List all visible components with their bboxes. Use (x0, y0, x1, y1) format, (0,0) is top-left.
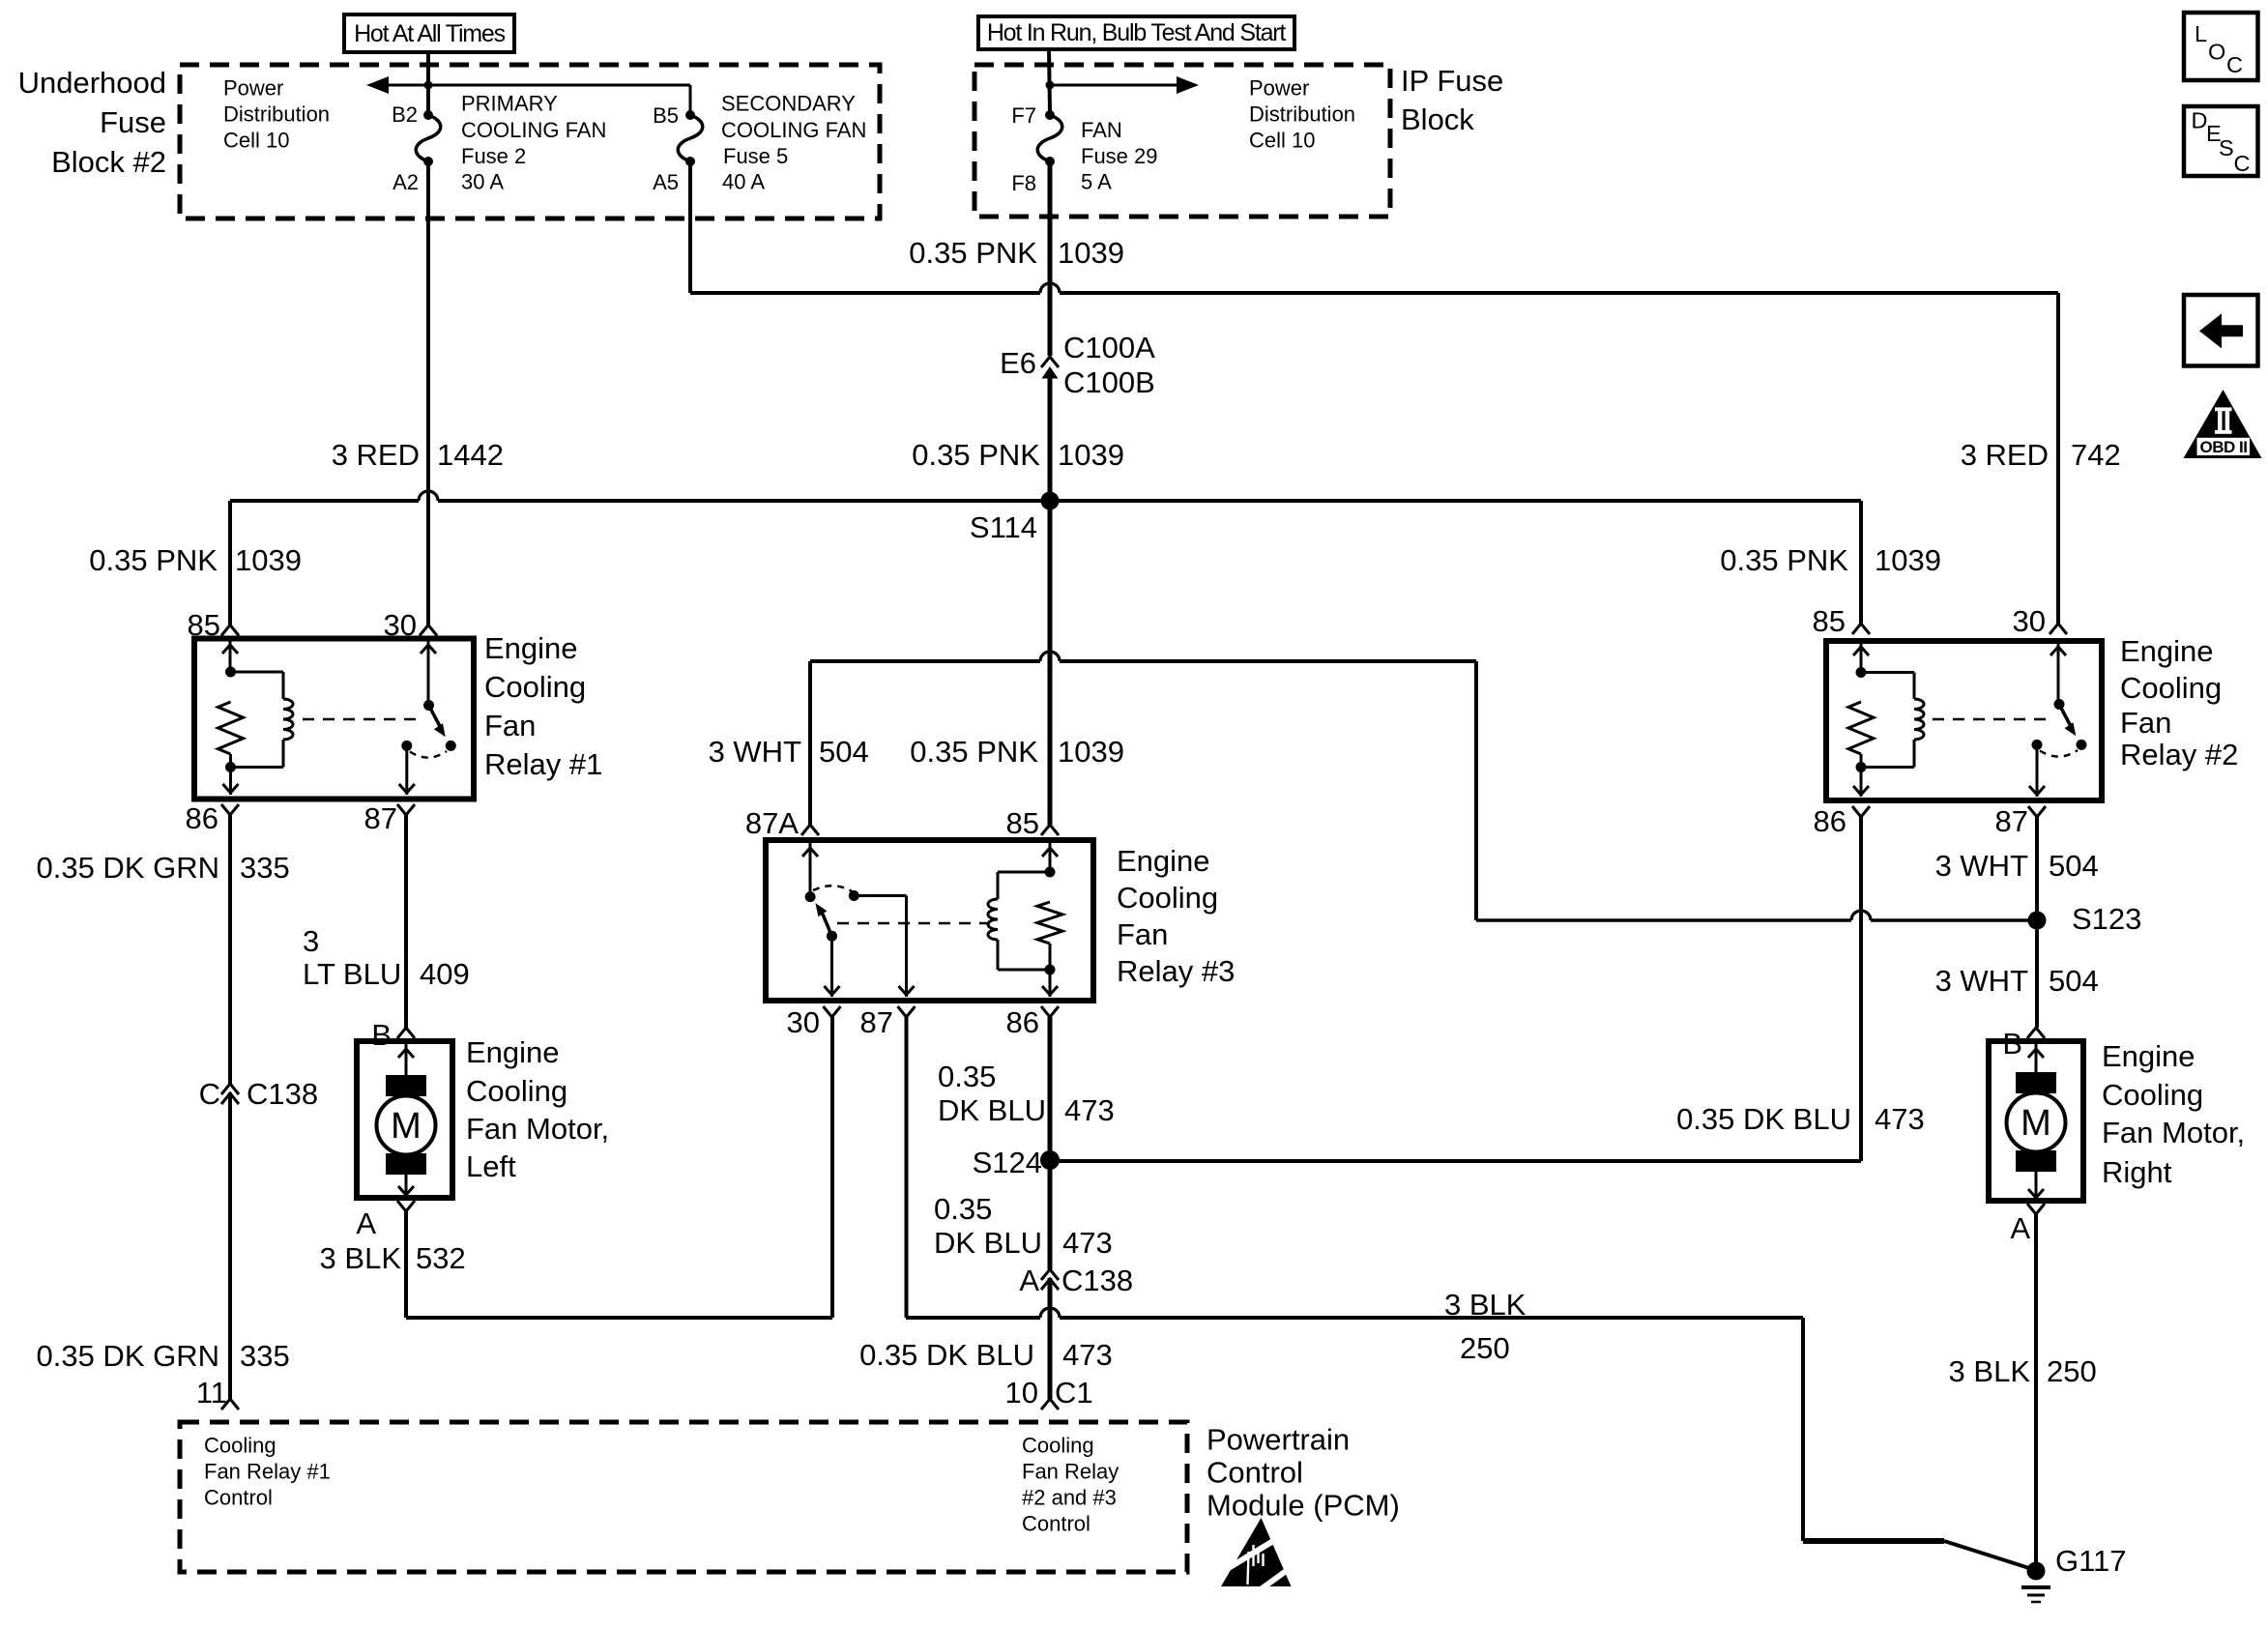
svg-text:3 RED: 3 RED (1961, 438, 2049, 472)
svg-text:250: 250 (1460, 1331, 1510, 1365)
svg-text:0.35 DK GRN: 0.35 DK GRN (36, 851, 219, 885)
svg-text:#2 and #3: #2 and #3 (1022, 1486, 1117, 1510)
svg-text:Cell 10: Cell 10 (223, 129, 289, 153)
svg-text:B2: B2 (392, 102, 418, 127)
svg-text:Cooling: Cooling (2102, 1078, 2203, 1112)
svg-text:Control: Control (1207, 1456, 1303, 1490)
svg-text:D: D (2192, 108, 2208, 133)
svg-text:473: 473 (1062, 1338, 1113, 1372)
svg-text:Fan: Fan (484, 709, 536, 742)
svg-text:30: 30 (2013, 604, 2046, 638)
svg-text:Fuse 2: Fuse 2 (461, 144, 526, 168)
svg-text:Relay #2: Relay #2 (2120, 738, 2238, 771)
svg-text:1442: 1442 (437, 438, 504, 472)
svg-text:87: 87 (1995, 804, 2028, 838)
svg-text:1039: 1039 (235, 543, 302, 577)
svg-text:Block: Block (1401, 102, 1474, 136)
svg-text:Engine: Engine (484, 631, 578, 665)
svg-text:O: O (2208, 40, 2225, 65)
svg-text:0.35 PNK: 0.35 PNK (1720, 543, 1848, 577)
svg-text:Engine: Engine (2120, 634, 2214, 668)
svg-text:0.35: 0.35 (934, 1192, 992, 1226)
svg-text:Cooling: Cooling (484, 670, 586, 704)
svg-text:Underhood: Underhood (18, 66, 166, 100)
svg-text:Relay #3: Relay #3 (1117, 954, 1235, 988)
svg-text:B: B (371, 1018, 392, 1052)
svg-text:A: A (2010, 1211, 2030, 1245)
svg-text:250: 250 (2047, 1354, 2097, 1388)
svg-text:3 RED: 3 RED (332, 438, 420, 472)
svg-text:86: 86 (186, 801, 218, 835)
svg-text:87: 87 (364, 801, 397, 835)
svg-text:30: 30 (384, 608, 417, 642)
svg-text:Fan Motor,: Fan Motor, (466, 1112, 609, 1146)
svg-text:Cooling: Cooling (1022, 1434, 1094, 1458)
svg-text:L: L (2195, 21, 2207, 46)
svg-text:Fan Relay: Fan Relay (1022, 1460, 1119, 1484)
svg-text:0.35 DK BLU: 0.35 DK BLU (1676, 1102, 1851, 1136)
svg-text:335: 335 (240, 851, 290, 885)
svg-text:1039: 1039 (1058, 236, 1124, 270)
svg-text:Module (PCM): Module (PCM) (1207, 1489, 1400, 1523)
svg-text:S: S (2219, 135, 2234, 160)
svg-text:F7: F7 (1011, 103, 1036, 128)
svg-text:S123: S123 (2072, 902, 2141, 936)
svg-text:Left: Left (466, 1149, 516, 1183)
svg-text:Fuse 29: Fuse 29 (1081, 144, 1158, 168)
svg-text:Distribution: Distribution (1249, 102, 1355, 127)
svg-text:Engine: Engine (2102, 1039, 2195, 1073)
svg-text:85: 85 (188, 608, 220, 642)
svg-text:A5: A5 (653, 170, 679, 194)
svg-text:3 WHT: 3 WHT (1935, 964, 2029, 998)
svg-text:Block #2: Block #2 (51, 145, 166, 179)
svg-text:85: 85 (1813, 604, 1846, 638)
svg-text:M: M (2021, 1103, 2051, 1144)
svg-text:0.35 DK GRN: 0.35 DK GRN (36, 1339, 219, 1373)
svg-text:Control: Control (204, 1486, 273, 1510)
svg-text:1039: 1039 (1058, 438, 1124, 472)
svg-text:C: C (199, 1077, 220, 1111)
svg-text:Relay #1: Relay #1 (484, 747, 602, 781)
svg-text:40 A: 40 A (722, 170, 765, 194)
svg-text:Fan: Fan (2120, 706, 2171, 740)
svg-text:0.35 PNK: 0.35 PNK (909, 236, 1037, 270)
svg-text:Fuse: Fuse (100, 105, 166, 139)
svg-text:COOLING FAN: COOLING FAN (461, 118, 606, 142)
svg-text:A: A (356, 1206, 376, 1240)
svg-text:C100B: C100B (1063, 365, 1155, 399)
svg-text:Cooling: Cooling (466, 1074, 567, 1108)
svg-text:DK BLU: DK BLU (938, 1093, 1046, 1127)
svg-text:S114: S114 (970, 510, 1037, 544)
svg-text:A: A (1019, 1264, 1039, 1297)
svg-text:F8: F8 (1011, 171, 1036, 195)
svg-text:504: 504 (2049, 964, 2099, 998)
svg-text:504: 504 (2049, 849, 2099, 883)
svg-text:504: 504 (819, 735, 869, 769)
svg-text:Cooling: Cooling (2120, 671, 2222, 705)
svg-text:FAN: FAN (1081, 118, 1122, 142)
svg-text:COOLING FAN: COOLING FAN (721, 118, 866, 142)
svg-text:Cooling: Cooling (204, 1434, 276, 1458)
svg-text:S124: S124 (973, 1146, 1042, 1179)
svg-text:30 A: 30 A (461, 170, 504, 194)
svg-text:10: 10 (1005, 1376, 1038, 1410)
svg-text:B5: B5 (653, 103, 679, 128)
svg-text:532: 532 (416, 1241, 466, 1275)
svg-text:C138: C138 (247, 1077, 318, 1111)
svg-text:Right: Right (2102, 1155, 2172, 1189)
svg-text:Hot In Run, Bulb Test And Star: Hot In Run, Bulb Test And Start (987, 19, 1287, 46)
svg-text:3 WHT: 3 WHT (1935, 849, 2029, 883)
svg-text:3 BLK: 3 BLK (1444, 1288, 1527, 1322)
svg-text:Fan Relay #1: Fan Relay #1 (204, 1460, 331, 1484)
svg-text:0.35: 0.35 (938, 1060, 996, 1093)
svg-text:Fan: Fan (1117, 917, 1168, 951)
svg-text:C: C (2234, 151, 2251, 176)
svg-text:Power: Power (223, 76, 283, 101)
svg-text:Power: Power (1249, 76, 1309, 101)
svg-text:1039: 1039 (1058, 735, 1124, 769)
svg-text:5 A: 5 A (1081, 170, 1112, 194)
svg-text:0.35 PNK: 0.35 PNK (912, 438, 1040, 472)
svg-text:Fan Motor,: Fan Motor, (2102, 1116, 2245, 1149)
svg-text:335: 335 (240, 1339, 290, 1373)
svg-text:C1: C1 (1055, 1376, 1093, 1410)
svg-text:Fuse 5: Fuse 5 (723, 144, 788, 168)
svg-text:0.35 PNK: 0.35 PNK (89, 543, 218, 577)
svg-text:3: 3 (303, 924, 319, 958)
svg-text:Cell 10: Cell 10 (1249, 129, 1315, 153)
svg-text:473: 473 (1062, 1226, 1113, 1260)
svg-text:Control: Control (1022, 1512, 1090, 1536)
svg-text:IP Fuse: IP Fuse (1401, 64, 1503, 98)
svg-text:3 WHT: 3 WHT (709, 735, 802, 769)
svg-text:0.35 PNK: 0.35 PNK (910, 735, 1038, 769)
svg-text:3 BLK: 3 BLK (320, 1241, 402, 1275)
svg-text:473: 473 (1875, 1102, 1925, 1136)
svg-text:C138: C138 (1061, 1264, 1133, 1297)
svg-text:E6: E6 (1000, 346, 1036, 380)
svg-text:G117: G117 (2055, 1544, 2127, 1578)
svg-text:Distribution: Distribution (223, 102, 330, 127)
svg-text:Engine: Engine (1117, 844, 1210, 878)
svg-text:85: 85 (1006, 806, 1039, 840)
svg-text:3 BLK: 3 BLK (1949, 1354, 2031, 1388)
svg-text:B: B (2002, 1027, 2022, 1061)
svg-text:Hot At All Times: Hot At All Times (354, 20, 506, 47)
svg-text:M: M (391, 1106, 422, 1147)
svg-text:87A: 87A (745, 806, 799, 840)
svg-text:C: C (2226, 52, 2243, 77)
svg-text:C100A: C100A (1063, 331, 1155, 364)
svg-text:Powertrain: Powertrain (1207, 1423, 1350, 1457)
svg-text:409: 409 (420, 957, 470, 991)
svg-text:SECONDARY: SECONDARY (721, 92, 856, 116)
svg-text:742: 742 (2071, 438, 2121, 472)
svg-text:30: 30 (787, 1005, 820, 1039)
svg-text:0.35 DK BLU: 0.35 DK BLU (859, 1338, 1034, 1372)
svg-text:DK BLU: DK BLU (934, 1226, 1042, 1260)
svg-text:LT BLU: LT BLU (303, 957, 401, 991)
svg-text:A2: A2 (393, 170, 419, 194)
svg-text:1039: 1039 (1875, 543, 1941, 577)
svg-text:Cooling: Cooling (1117, 881, 1218, 915)
svg-text:86: 86 (1814, 804, 1846, 838)
svg-text:PRIMARY: PRIMARY (461, 92, 558, 116)
svg-text:87: 87 (860, 1005, 893, 1039)
svg-text:Engine: Engine (466, 1035, 560, 1069)
svg-text:11: 11 (196, 1376, 227, 1410)
svg-text:473: 473 (1064, 1093, 1115, 1127)
svg-text:OBD II: OBD II (2200, 438, 2248, 456)
svg-text:86: 86 (1006, 1005, 1039, 1039)
